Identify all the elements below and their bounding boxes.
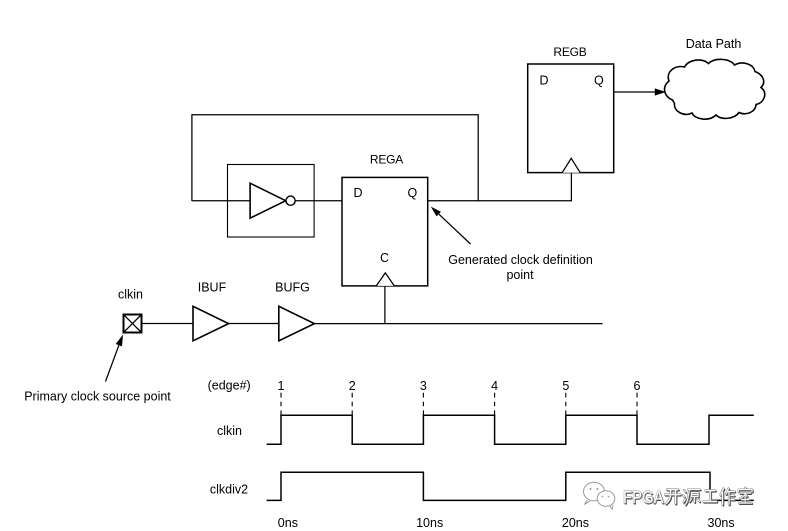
label 10ns: [416, 516, 443, 530]
wire feedback loop left: [191, 114, 193, 201]
label (edge#): [208, 379, 251, 393]
label Data Path: [686, 37, 742, 51]
svg-text:D: D: [354, 186, 363, 200]
watermark char 工: [704, 491, 718, 503]
register REGB body: [528, 64, 614, 173]
wire REGA clock stub: [384, 286, 386, 324]
edge number 6: [634, 379, 641, 393]
inverter U1 triangle: [250, 183, 286, 218]
svg-text:3: 3: [420, 379, 427, 393]
svg-text:Q: Q: [408, 186, 418, 200]
svg-text:IBUF: IBUF: [198, 281, 227, 295]
edge marker dashed line 1: [280, 393, 282, 415]
svg-text:Q: Q: [594, 73, 604, 87]
REGA pin C: [380, 251, 389, 265]
wire inverter input: [192, 200, 250, 202]
wire up to REGB clock: [570, 173, 572, 202]
watermark char 作: [721, 489, 736, 506]
label REGB: [553, 45, 586, 59]
svg-text:C: C: [380, 251, 389, 265]
wire X-box to IBUF: [142, 323, 194, 325]
REGB clock triangle: [562, 158, 580, 172]
svg-text:D: D: [540, 73, 549, 87]
label clkin waveform: [217, 424, 242, 438]
watermark wechat icon: [584, 482, 615, 509]
svg-text:point: point: [506, 268, 534, 282]
label 20ns: [562, 516, 589, 530]
arrow to primary clock point: [106, 335, 124, 382]
label Generated clock definition point: [448, 253, 593, 282]
arrowhead to cloud: [655, 88, 666, 95]
buffer BUFG triangle: [279, 306, 315, 341]
svg-text:(edge#): (edge#): [208, 379, 251, 393]
svg-text:Primary clock source point: Primary clock source point: [24, 390, 171, 404]
wire REGA Q output: [428, 200, 572, 202]
label REGA: [370, 152, 403, 166]
edge marker dashed line 5: [565, 393, 567, 415]
svg-text:REGB: REGB: [553, 45, 586, 59]
label clkdiv2 waveform: [210, 482, 248, 496]
register REGA body: [342, 177, 428, 286]
label 0ns: [278, 516, 298, 530]
svg-text:clkdiv2: clkdiv2: [210, 482, 248, 496]
primary clock source X-box: [124, 315, 142, 333]
svg-text:FPGA: FPGA: [623, 487, 664, 507]
REGA pin D: [354, 186, 363, 200]
wire IBUF to BUFG: [229, 323, 279, 325]
REGA pin Q: [408, 186, 418, 200]
label IBUF: [198, 281, 227, 295]
REGB pin Q: [594, 73, 604, 87]
svg-text:5: 5: [562, 379, 569, 393]
label BUFG: [275, 281, 310, 295]
wire REGB Q to cloud: [614, 91, 656, 93]
svg-text:4: 4: [491, 379, 498, 393]
svg-text:30ns: 30ns: [708, 516, 735, 530]
inverter enclosure box: [228, 165, 315, 238]
svg-text:2: 2: [349, 379, 356, 393]
edge number 1: [278, 379, 285, 393]
edge marker dashed line 4: [494, 393, 496, 415]
edge number 2: [349, 379, 356, 393]
svg-text:20ns: 20ns: [562, 516, 589, 530]
buffer IBUF triangle: [193, 306, 229, 341]
edge number 4: [491, 379, 498, 393]
edge number 3: [420, 379, 427, 393]
edge marker dashed line 2: [351, 393, 353, 415]
svg-text:Generated clock definition: Generated clock definition: [448, 253, 593, 267]
svg-text:0ns: 0ns: [278, 516, 298, 530]
label Primary clock source point: [24, 390, 171, 404]
svg-text:REGA: REGA: [370, 152, 403, 166]
inverter U1 output bubble: [286, 196, 295, 205]
REGB pin D: [540, 73, 549, 87]
wire feedback loop right: [477, 114, 479, 201]
watermark char 室: [739, 488, 753, 505]
svg-text:Data Path: Data Path: [686, 37, 742, 51]
watermark char 源: [683, 490, 701, 506]
svg-text:clkin: clkin: [118, 288, 143, 302]
label 30ns: [708, 516, 735, 530]
svg-text:clkin: clkin: [217, 424, 242, 438]
svg-text:BUFG: BUFG: [275, 281, 310, 295]
clkdiv2 waveform: [267, 472, 754, 500]
wire inverter output to REGA D: [295, 200, 342, 202]
edge marker dashed line 3: [422, 393, 424, 415]
wire main clock line: [314, 323, 602, 325]
edge marker dashed line 6: [636, 393, 638, 415]
watermark char 开: [665, 490, 681, 505]
wire feedback loop top: [192, 114, 478, 116]
clkin waveform: [267, 415, 754, 444]
svg-text:6: 6: [634, 379, 641, 393]
watermark FPGA text: [623, 487, 665, 508]
label clkin: [118, 288, 143, 302]
svg-text:10ns: 10ns: [416, 516, 443, 530]
data path cloud: [665, 59, 765, 119]
svg-text:1: 1: [278, 379, 285, 393]
edge number 5: [562, 379, 569, 393]
REGA clock triangle: [376, 273, 394, 286]
arrow to generated clock point: [431, 207, 471, 244]
